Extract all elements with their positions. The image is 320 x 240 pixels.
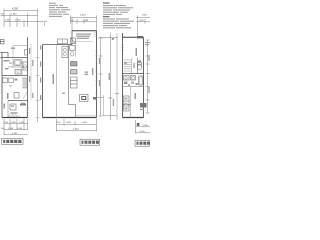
plan2 top wall window ticks <box>94 33 96 37</box>
plan3 caption characters <box>137 142 151 145</box>
dim column C line <box>116 33 118 120</box>
plan1 genkan west wall <box>7 101 9 118</box>
plan3 interior wall y86.5 <box>123 86 144 88</box>
plan2 interior wall x68.5 <box>68 45 70 105</box>
dim column A line <box>100 38 102 116</box>
plan3 outside text top right <box>145 42 150 43</box>
plan1 upper vertical x13 <box>12 46 14 58</box>
notes block A text lines <box>49 3 70 17</box>
plan1 vertical x22 mid <box>21 58 23 76</box>
plan3 bottom dim line 1 <box>136 126 151 128</box>
plan2 top dim ticks <box>71 16 97 31</box>
plan1 top dimension row 2 <box>1 15 38 17</box>
plan2 upper fixture <box>58 39 68 44</box>
plan3 small mark below AC <box>140 109 144 110</box>
svg-text:1,365: 1,365 <box>82 122 88 124</box>
plan3 mid dark mark 2 <box>131 82 134 85</box>
plan1 genkan step <box>10 104 16 110</box>
plan2 west wall <box>42 45 44 118</box>
plan2 top wall <box>72 30 97 32</box>
plan3 washer <box>131 76 136 81</box>
plan1 bath tub <box>14 60 21 66</box>
plan3 east dim line <box>147 40 149 113</box>
boundary ticks <box>36 58 40 118</box>
plan2 setback wall <box>43 44 73 46</box>
plan2 bottom dim line 2 <box>57 130 97 132</box>
plan2 caption characters <box>82 141 99 144</box>
plan1 west wall window ticks <box>1 62 3 92</box>
plan3 bottom wall <box>123 117 144 119</box>
plan1 east rotated text 3 <box>29 76 30 82</box>
plan1 wall y57.5 <box>0 57 27 59</box>
plan3 east dim rotated texts <box>148 55 149 61</box>
dim column B line <box>110 33 112 120</box>
plan2 west dim rotated text 2 <box>40 78 41 83</box>
plan3 interior wall y73.5 <box>123 73 144 75</box>
plan2 west dim rotated text 1 <box>40 62 41 67</box>
plan3 interior wall y104.5 <box>123 104 131 106</box>
plan1 east wall door ticks <box>26 108 28 113</box>
dim column A dark label <box>93 97 97 100</box>
dim column B ticks <box>99 38 120 116</box>
plan3 top dim tick <box>137 16 139 38</box>
plan1 toilet unit <box>23 62 28 70</box>
plan1 bath tub inner <box>15 61 20 65</box>
plan3 bath <box>139 76 144 85</box>
plan1 stair treads <box>22 78 28 88</box>
plan3 mid band dot <box>128 84 130 86</box>
plan3 interior wall x130.5 <box>130 87 132 118</box>
plan2 east wall <box>96 31 98 118</box>
plan1 room label washitsu vertical <box>7 93 9 99</box>
plan1 storage box <box>3 78 8 83</box>
plan1 room label washroom <box>4 60 10 61</box>
plan1 porch label <box>11 112 18 113</box>
svg-text:1,365: 1,365 <box>5 20 11 22</box>
plan1 upper east box <box>25 50 28 56</box>
plan2 hall divider <box>75 45 77 58</box>
plan2 upper label lines <box>76 34 91 39</box>
plan1 room fixture mid <box>14 93 19 99</box>
plan3 AC unit <box>140 103 147 108</box>
plan3 east dim ticks <box>146 40 150 113</box>
svg-text:4,550: 4,550 <box>73 128 79 130</box>
plan3 bottom dark mark <box>137 123 140 126</box>
plan1 bottom dim ticks <box>4 119 28 135</box>
dim column B small mark <box>112 38 114 40</box>
plan1 room label genkan vertical <box>4 104 6 109</box>
plan1 bottom dim line 3 <box>4 134 28 136</box>
plan1 wall y100.5 <box>8 100 28 102</box>
plan1 porch line <box>8 115 20 117</box>
plan1 bottom wall <box>2 117 28 119</box>
plan1 bottom dim line 2 <box>4 129 28 131</box>
dim column A rotated texts <box>99 58 100 64</box>
plan2 caption box 2F <box>80 139 100 145</box>
plan1 bottom dim line 1 <box>4 123 28 125</box>
plan1 wall y75.5 <box>2 75 28 77</box>
dim column B rotated texts <box>109 73 110 80</box>
plan3 caption box 3F <box>135 140 150 146</box>
plan2 bottom wall <box>43 117 97 119</box>
plan1 genkan inner mark <box>11 105 14 107</box>
plan1 east rotated text 4 <box>32 93 33 98</box>
notes block B lower lines <box>103 19 134 29</box>
svg-text:1,330: 1,330 <box>15 20 21 22</box>
plan2 LDK label <box>85 72 89 73</box>
plan2 stove circle <box>63 53 66 56</box>
plan2 small label <box>62 93 65 94</box>
plan1 porch hatch <box>9 114 17 117</box>
plan2 upper fixture divider <box>62 39 64 44</box>
plan3 under-stair dark mark <box>124 62 127 65</box>
plan1 entrance door <box>20 104 26 105</box>
svg-text:4,550: 4,550 <box>80 14 86 16</box>
plan1 top dimension row 3 <box>4 21 47 23</box>
plan2 east wall window ticks <box>95 51 97 101</box>
plan1 upper partial wall <box>13 45 28 47</box>
plan1 top dimension ticks <box>4 9 28 28</box>
plan1 bath north wall <box>0 52 8 54</box>
plan2 upper label underline <box>74 41 94 43</box>
plan1 room label small <box>5 68 9 69</box>
plan1 room label bath <box>11 48 15 49</box>
notes block B title <box>103 2 110 3</box>
plan2 upper west wall <box>71 31 73 45</box>
plan3 west wall <box>122 33 124 118</box>
plan2 bottom dim line 1 <box>57 124 97 126</box>
plan1 toilet bowl <box>24 65 27 69</box>
plan3 closet marks <box>125 98 128 100</box>
plan1 east dim line <box>30 44 32 100</box>
plan2 interior wall x75.5 <box>75 105 77 118</box>
plan2 fridge shelf unit <box>71 77 78 88</box>
svg-text:2,680: 2,680 <box>11 14 17 16</box>
plan1 bath east wall <box>7 53 9 59</box>
plan3 bath inner <box>139 77 142 84</box>
plan1 hall small mark <box>9 85 12 87</box>
plan2 west dim rotated text 4 <box>40 95 41 100</box>
plan2 interior wall y104.5 <box>69 104 76 106</box>
plan3 interior wall x137.5 <box>137 58 139 74</box>
plan3 east wall <box>143 37 145 117</box>
plan1 washroom extra mark <box>9 63 12 64</box>
plan2 bottom dim ticks <box>57 119 97 132</box>
plan2 room label vertical <box>53 74 55 84</box>
plan3 window ticks west <box>121 45 123 97</box>
plan3 stair label strip <box>134 63 135 68</box>
plan3 top dim line 1 <box>136 17 150 19</box>
plan2 sink circle <box>63 48 66 51</box>
plan2 dining table <box>80 95 89 102</box>
row3 extension end tick <box>44 22 46 26</box>
plan1 east rotated text 2 <box>32 60 33 66</box>
plan3 room label vertical <box>135 93 137 99</box>
plan2 top dim line 2 <box>71 21 97 23</box>
plan2 wc bowl <box>71 52 74 56</box>
plan2 kitchen appliance 2 <box>71 70 78 75</box>
plan3 toilet <box>137 64 141 70</box>
plan2 top dim line 1 <box>71 17 97 19</box>
plan2 hatched box <box>71 38 76 44</box>
plan3 mid band mark <box>136 83 139 85</box>
plan1 west wall <box>1 53 3 118</box>
plan2 wc box <box>70 46 76 51</box>
dim column D partial line <box>103 95 105 116</box>
plan2 kitchen appliance 1 <box>71 62 78 67</box>
notes block B upper lines <box>103 5 133 15</box>
plan3 bottom dim line 2 <box>136 132 151 134</box>
dim column A ticks <box>97 38 105 116</box>
plan2 kitchen counter <box>62 47 68 58</box>
plan1 bay window boxes <box>0 40 4 44</box>
plan1 wall y67 <box>8 66 28 68</box>
plan1 storage box 2 <box>9 78 14 83</box>
plan3 top wall <box>123 36 144 38</box>
svg-text:1,820: 1,820 <box>66 122 72 124</box>
plan1 vertical x13 mid <box>12 58 14 68</box>
plan3 room label top vertical <box>136 48 138 56</box>
plan1 hall dark mark <box>15 79 18 81</box>
plan1 caption characters <box>3 140 21 143</box>
plan3 balcony dark mark <box>137 36 143 38</box>
plan1 caption box 1F <box>2 138 24 144</box>
plan2 balcony line <box>76 115 97 117</box>
plan3 vanity <box>124 76 130 81</box>
plan3 bottom dim tick <box>135 120 137 134</box>
plan1 washstand <box>15 70 21 75</box>
plan3 mid dark mark 1 <box>124 82 128 85</box>
plan1 stair arrow <box>23 92 27 99</box>
plan1 washstand circle <box>17 71 19 73</box>
plan2 table inner <box>82 97 86 100</box>
plan2 interior wall x56.5 <box>56 45 58 118</box>
plan1 top dimension row 1 total <box>4 10 38 12</box>
plan3 closet <box>124 96 130 111</box>
plan2 east rotated text <box>92 68 93 75</box>
plan1 east rotated text 1 <box>29 48 30 54</box>
plan2 west dim rotated text 3 <box>40 46 41 50</box>
plan3 stair treads <box>124 58 132 74</box>
plan3 top dim line 2 <box>136 21 150 23</box>
notes block B subtitle <box>103 16 110 17</box>
svg-text:1,820: 1,820 <box>142 14 148 16</box>
plan1 east wall <box>27 37 29 118</box>
plan3 toilet dark mark <box>138 61 141 63</box>
svg-text:4,550: 4,550 <box>12 8 19 11</box>
plan1 door dark mark <box>21 103 26 105</box>
site boundary line between plan1 and plan2 <box>37 9 39 123</box>
